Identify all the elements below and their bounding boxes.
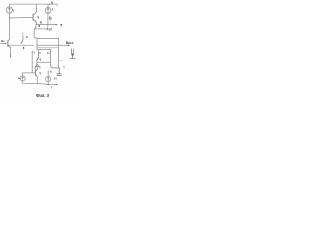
- wire lower mid horizontal: [37, 49, 51, 51]
- transistor Q1: [33, 12, 36, 22]
- tick right: [60, 59, 63, 61]
- wire Q6 emitter to rail: [36, 77, 38, 84]
- junction dot bus: [47, 24, 49, 26]
- label 7: [61, 25, 62, 27]
- svg-text:Фиг. 3: Фиг. 3: [36, 93, 50, 98]
- junction dot I4: [47, 84, 49, 86]
- junction dot top rail: [49, 3, 51, 5]
- label 9: [39, 25, 40, 27]
- wire base feed Q6: [23, 72, 36, 74]
- wire I3 top riser: [22, 73, 24, 76]
- label 4: [26, 36, 27, 38]
- wire bottom rail: [37, 83, 57, 84]
- wire I2 drop: [47, 13, 49, 24]
- label 6: [52, 1, 53, 3]
- current source I3: [20, 76, 25, 81]
- wire left long vertical: [31, 51, 33, 73]
- wire bus horizontal: [36, 24, 57, 26]
- wire right drop: [58, 39, 60, 68]
- wire top rail: [10, 4, 58, 7]
- wire Q1 emitter to bus: [35, 22, 37, 24]
- label right of I2: [51, 9, 53, 10]
- current source I2: [45, 7, 51, 13]
- wire I2 riser: [47, 4, 49, 7]
- label j callout: [21, 35, 23, 43]
- label below rail: [51, 87, 53, 88]
- label 17: [50, 29, 52, 31]
- transistor Q3: [8, 39, 10, 48]
- transistor Q6: [35, 70, 37, 77]
- label 12: [37, 65, 39, 67]
- load symbol stem: [72, 56, 74, 58]
- transistor Q2 zigzag upper: [35, 25, 37, 28]
- node A junction dot: [9, 17, 10, 18]
- bus arrowhead: [56, 24, 58, 26]
- wire output: [37, 44, 69, 46]
- svg-text:Вых: Вых: [66, 41, 74, 45]
- wire I3 bottom corner: [23, 81, 38, 84]
- arrow dot left of I3: [18, 77, 20, 79]
- load symbol dot: [71, 53, 74, 56]
- wire mid horizontal upper: [37, 38, 59, 40]
- wire branch at 62: [37, 60, 51, 62]
- load symbol base: [71, 57, 75, 59]
- wire Q3 emitter: [9, 47, 11, 57]
- wire mid horizontal second: [37, 47, 58, 49]
- wire collector drop Q1: [35, 4, 37, 12]
- current source I4: [46, 76, 51, 81]
- wire corner right: [34, 38, 37, 50]
- wire base feed Q1: [10, 16, 33, 19]
- label 11 blob: [40, 22, 41, 24]
- wire input net: [7, 44, 33, 46]
- rail arrowhead: [56, 84, 58, 86]
- current source I1: [6, 7, 12, 13]
- label 13: [39, 72, 41, 74]
- wire corner top of long vertical: [32, 52, 34, 54]
- wire right vertical mid: [51, 50, 60, 68]
- emitter arrowhead down: [10, 56, 11, 58]
- wire Q6 collector stub: [36, 67, 38, 70]
- label 2: [37, 16, 39, 18]
- label near I4 top: [50, 71, 52, 73]
- label 5: [22, 47, 25, 49]
- wire I1 bottom down to Q3 collector: [9, 13, 11, 39]
- load symbol prongs: [72, 49, 74, 54]
- wire I4 bottom riser: [47, 82, 49, 85]
- node label 1: [12, 10, 14, 11]
- capacitor C1: [57, 68, 61, 75]
- svg-text:Вх: Вх: [1, 39, 5, 43]
- transistor Q4 zigzag lower: [38, 50, 40, 57]
- wire pi corner: [35, 67, 40, 69]
- wire Q2 base feed from I2 drop: [36, 25, 48, 29]
- wire I4 top riser: [47, 71, 49, 76]
- label 8: [49, 17, 51, 20]
- wire Q2 emitter down: [33, 30, 35, 38]
- label small right: [63, 67, 65, 69]
- output arrowhead: [68, 45, 70, 47]
- label upper numeral: [39, 59, 41, 61]
- input arrow: [1, 43, 7, 45]
- svg-text:14: 14: [54, 76, 57, 80]
